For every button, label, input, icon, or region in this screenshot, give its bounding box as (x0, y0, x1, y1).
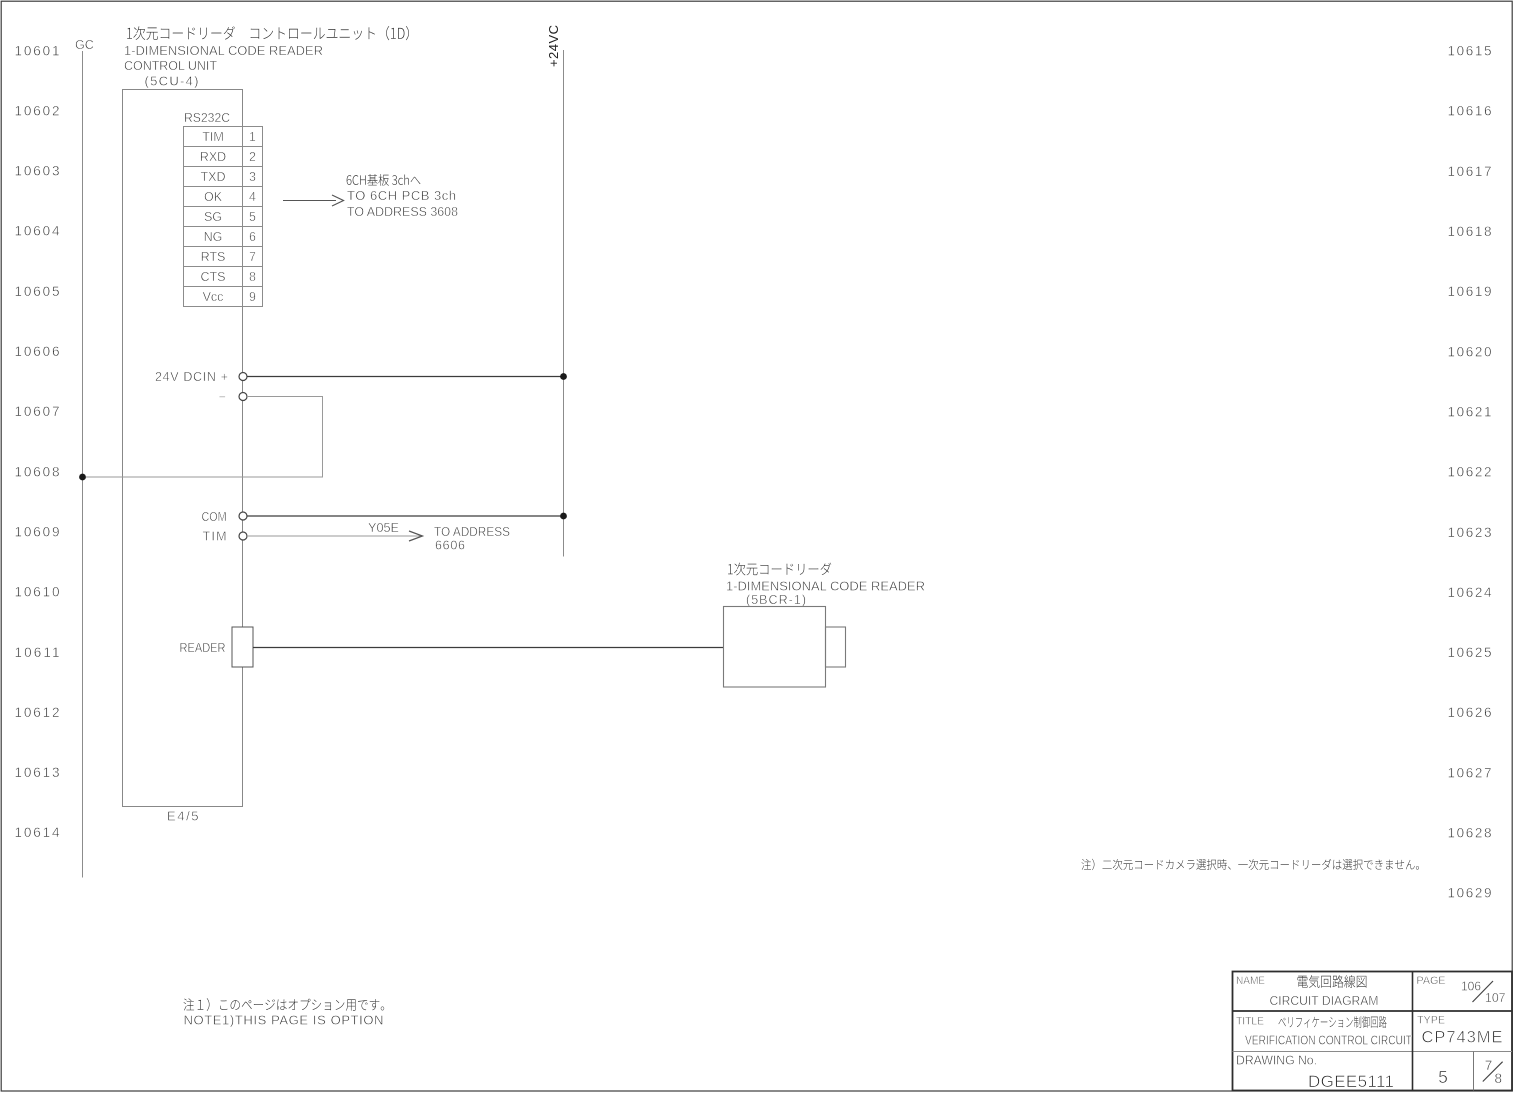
junction dot on GC bus (79, 474, 86, 481)
svg-text:10605: 10605 (15, 284, 60, 299)
svg-text:10616: 10616 (1448, 104, 1492, 119)
svg-text:9: 9 (249, 290, 256, 304)
wire READER to code reader (253, 647, 724, 649)
terminal TIM circle (239, 532, 247, 540)
svg-text:CIRCUIT DIAGRAM: CIRCUIT DIAGRAM (1270, 993, 1379, 1008)
terminal COM circle (239, 512, 247, 520)
svg-text:TO 6CH PCB 3ch: TO 6CH PCB 3ch (347, 188, 456, 203)
svg-text:24V DCIN +: 24V DCIN + (155, 370, 228, 384)
label code reader title (Japanese) 1次元コードリーダ (728, 563, 831, 576)
svg-text:107: 107 (1485, 990, 1506, 1005)
code reader connector stub (826, 627, 846, 667)
connector RS232C pin table (184, 127, 263, 307)
svg-text:10615: 10615 (1448, 44, 1492, 59)
svg-text:10624: 10624 (1448, 585, 1492, 600)
svg-text:10628: 10628 (1448, 826, 1492, 841)
svg-text:10601: 10601 (15, 43, 60, 58)
junction dot +24VC at COM (560, 513, 567, 520)
arrowhead TIM signal (409, 531, 423, 541)
svg-text:CONTROL UNIT: CONTROL UNIT (124, 58, 217, 73)
label control unit title (Japanese) 1次元コードリーダ コントロールユニット（1D） (127, 26, 409, 40)
svg-text:4: 4 (249, 190, 256, 204)
svg-text:TIM: TIM (203, 529, 227, 543)
svg-text:8: 8 (1495, 1071, 1503, 1086)
svg-text:10607: 10607 (15, 404, 60, 419)
svg-text:10629: 10629 (1448, 886, 1492, 901)
code reader 5BCR-1 box (724, 607, 826, 688)
svg-text:10626: 10626 (1448, 705, 1492, 720)
terminal 24V DCIN + circle (239, 373, 247, 381)
svg-text:10603: 10603 (15, 164, 60, 179)
svg-text:10602: 10602 (15, 103, 60, 118)
wire signal from pin 4 OK (283, 200, 336, 202)
svg-text:10627: 10627 (1448, 765, 1492, 780)
svg-text:10623: 10623 (1448, 525, 1492, 540)
svg-text:COM: COM (202, 510, 227, 524)
svg-text:1-DIMENSIONAL CODE READER: 1-DIMENSIONAL CODE READER (124, 43, 323, 58)
svg-text:5: 5 (1438, 1067, 1448, 1087)
svg-text:−: − (219, 390, 226, 404)
svg-text:TYPE: TYPE (1417, 1014, 1445, 1026)
svg-text:TO ADDRESS 3608: TO ADDRESS 3608 (347, 204, 458, 219)
svg-text:10620: 10620 (1448, 344, 1492, 359)
svg-text:NG: NG (204, 230, 223, 244)
svg-text:7: 7 (1485, 1058, 1493, 1073)
svg-text:10614: 10614 (15, 825, 60, 840)
svg-text:8: 8 (249, 270, 256, 284)
svg-text:10621: 10621 (1448, 405, 1492, 420)
svg-text:+24VC: +24VC (546, 25, 561, 67)
svg-text:RS232C: RS232C (184, 110, 230, 125)
title block title (Japanese) ベリフィケーション制御回路 (1279, 1016, 1387, 1028)
svg-text:10612: 10612 (15, 705, 60, 720)
svg-text:DGEE5111: DGEE5111 (1308, 1072, 1394, 1091)
svg-text:5: 5 (249, 210, 256, 224)
svg-text:READER: READER (180, 641, 226, 655)
svg-text:3: 3 (249, 170, 256, 184)
svg-text:NAME: NAME (1236, 975, 1265, 987)
svg-text:TITLE: TITLE (1236, 1015, 1264, 1027)
title block frame (1233, 972, 1513, 1091)
svg-text:VERIFICATION CONTROL CIRCUIT: VERIFICATION CONTROL CIRCUIT (1245, 1033, 1412, 1047)
control unit 5CU-4 box (123, 90, 243, 807)
svg-text:CTS: CTS (201, 270, 226, 284)
svg-text:E4/5: E4/5 (167, 808, 199, 823)
svg-text:7: 7 (249, 250, 256, 264)
svg-text:106: 106 (1461, 979, 1481, 994)
arrowhead to 6CH PCB (332, 195, 344, 206)
wire GC vertical bus (82, 51, 84, 878)
svg-text:1: 1 (249, 130, 256, 144)
svg-text:6: 6 (249, 230, 256, 244)
svg-text:(5CU-4): (5CU-4) (145, 74, 199, 89)
svg-text:(5BCR-1): (5BCR-1) (746, 593, 806, 607)
svg-text:2: 2 (249, 150, 256, 164)
junction dot +24VC at DCIN+ (560, 373, 567, 380)
svg-text:10611: 10611 (15, 645, 60, 660)
wire COM to +24VC bus (247, 515, 564, 517)
terminal 24V DCIN - circle (239, 393, 247, 401)
svg-text:10604: 10604 (15, 224, 60, 239)
wire 24V DCIN + to +24VC bus (247, 376, 564, 378)
svg-text:OK: OK (204, 190, 223, 204)
wire 24V DCIN - loop to GC bus (83, 397, 323, 478)
svg-text:10609: 10609 (15, 525, 60, 540)
svg-text:TIM: TIM (202, 130, 224, 144)
svg-text:NOTE1)THIS PAGE IS OPTION: NOTE1)THIS PAGE IS OPTION (184, 1012, 384, 1027)
svg-text:TO ADDRESS: TO ADDRESS (434, 525, 510, 539)
svg-text:Y05E: Y05E (368, 520, 399, 535)
svg-text:TXD: TXD (201, 170, 226, 184)
wire TIM signal Y05E (247, 535, 422, 537)
svg-text:10618: 10618 (1448, 224, 1492, 239)
svg-text:RTS: RTS (201, 250, 226, 264)
note 1 (Japanese) このページはオプション用です (184, 998, 385, 1011)
svg-text:Vcc: Vcc (203, 290, 224, 304)
svg-text:10606: 10606 (15, 344, 60, 359)
svg-text:SG: SG (204, 210, 222, 224)
svg-text:10610: 10610 (15, 585, 60, 600)
svg-text:6606: 6606 (435, 538, 465, 552)
connector READER rect (232, 627, 253, 667)
note 2 (Japanese) 二次元コードカメラ選択時... (1081, 859, 1418, 870)
label 6CH基板 3chへ (Japanese) (347, 174, 421, 186)
svg-text:10619: 10619 (1448, 284, 1492, 299)
svg-text:DRAWING No.: DRAWING No. (1236, 1054, 1317, 1068)
svg-text:10608: 10608 (15, 464, 60, 479)
svg-text:1-DIMENSIONAL CODE READER: 1-DIMENSIONAL CODE READER (726, 578, 925, 593)
svg-text:CP743ME: CP743ME (1422, 1029, 1503, 1047)
svg-text:10617: 10617 (1448, 164, 1492, 179)
wire +24VC vertical bus (563, 50, 565, 557)
svg-text:PAGE: PAGE (1417, 975, 1446, 987)
svg-text:RXD: RXD (200, 150, 226, 164)
svg-text:10613: 10613 (15, 765, 60, 780)
svg-text:10625: 10625 (1448, 645, 1492, 660)
svg-text:10622: 10622 (1448, 465, 1492, 480)
title block name (Japanese) 電気回路線図 (1298, 975, 1367, 988)
svg-text:GC: GC (75, 38, 94, 52)
